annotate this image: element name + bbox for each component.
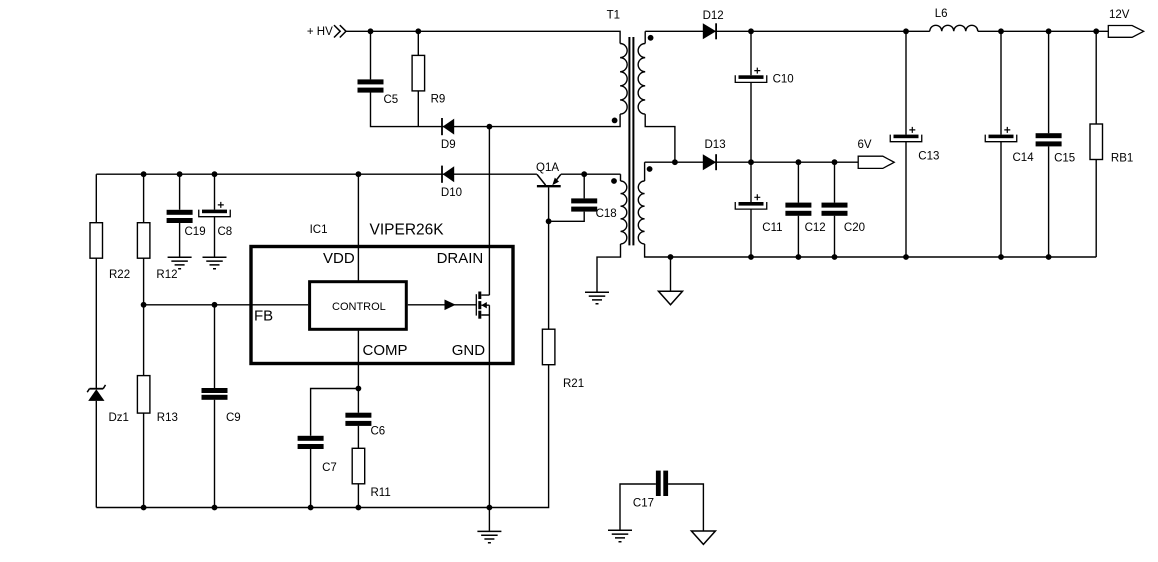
svg-text:CONTROL: CONTROL <box>332 301 386 313</box>
svg-text:DRAIN: DRAIN <box>437 250 484 267</box>
svg-text:C5: C5 <box>384 94 399 106</box>
svg-text:VIPER26K: VIPER26K <box>370 222 445 239</box>
svg-text:C11: C11 <box>762 222 782 234</box>
svg-text:6V: 6V <box>858 139 872 151</box>
svg-text:C19: C19 <box>185 226 206 238</box>
svg-text:R12: R12 <box>156 269 177 281</box>
svg-text:C18: C18 <box>596 208 617 220</box>
svg-text:D13: D13 <box>705 139 726 151</box>
svg-text:IC1: IC1 <box>310 224 328 236</box>
svg-text:C6: C6 <box>371 426 386 438</box>
svg-text:C13: C13 <box>918 151 939 163</box>
svg-text:C12: C12 <box>805 222 826 234</box>
svg-text:R9: R9 <box>431 94 446 106</box>
svg-text:Dz1: Dz1 <box>109 412 129 424</box>
svg-text:GND: GND <box>452 342 486 359</box>
svg-text:R11: R11 <box>371 487 391 499</box>
svg-text:R13: R13 <box>157 412 178 424</box>
svg-text:Q1A: Q1A <box>536 162 559 174</box>
svg-text:R22: R22 <box>109 269 130 281</box>
svg-text:C8: C8 <box>218 226 233 238</box>
svg-text:T1: T1 <box>607 10 620 22</box>
svg-text:C10: C10 <box>773 74 794 86</box>
svg-text:C17: C17 <box>633 497 654 509</box>
svg-text:D12: D12 <box>703 10 724 22</box>
svg-text:VDD: VDD <box>323 250 355 267</box>
svg-text:R21: R21 <box>563 378 584 390</box>
svg-text:C14: C14 <box>1013 152 1035 164</box>
svg-text:FB: FB <box>254 308 273 325</box>
svg-text:+ HV: + HV <box>307 26 333 38</box>
svg-text:L6: L6 <box>935 8 948 20</box>
svg-text:D10: D10 <box>441 187 462 199</box>
svg-text:COMP: COMP <box>363 342 408 359</box>
svg-text:C15: C15 <box>1054 153 1075 165</box>
svg-text:C7: C7 <box>322 462 337 474</box>
svg-text:C9: C9 <box>226 412 241 424</box>
svg-text:12V: 12V <box>1109 9 1130 21</box>
svg-text:D9: D9 <box>441 139 456 151</box>
svg-text:RB1: RB1 <box>1111 153 1133 165</box>
svg-text:C20: C20 <box>844 222 865 234</box>
